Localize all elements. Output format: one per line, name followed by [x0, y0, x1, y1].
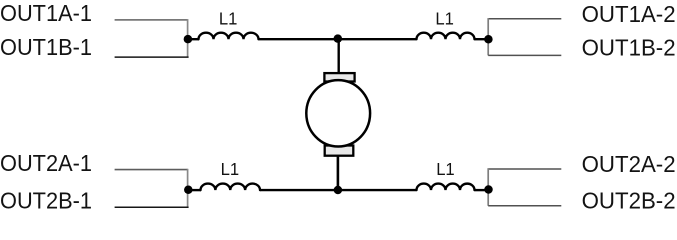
wire motor top lead — [338, 39, 340, 75]
wire OUT1A-1 stub (gray) — [115, 19, 188, 21]
svg-text:L1: L1 — [221, 159, 240, 179]
wire OUT2A-1 stub (gray) — [115, 169, 188, 171]
svg-text:OUT1B-2: OUT1B-2 — [582, 35, 676, 61]
wire top rail: dot to L1 (top-left) — [188, 38, 199, 40]
wire top rail: center segment — [259, 38, 417, 40]
inductor L1 (bottom-right) — [417, 184, 475, 190]
svg-text:OUT2B-2: OUT2B-2 — [582, 188, 676, 214]
svg-text:OUT2B-1: OUT2B-1 — [0, 188, 92, 214]
inductor L1 (top-left) — [199, 33, 259, 40]
junction dot top-right — [484, 35, 493, 44]
wire vertical connector bottom-left (gray) — [187, 169, 189, 207]
wire OUT1A-2 stub (gray) — [488, 18, 561, 20]
junction dot bottom-center — [334, 186, 343, 195]
wire OUT2B-2 stub (gray) — [488, 205, 561, 207]
svg-text:L1: L1 — [219, 9, 238, 29]
wire bottom rail: center segment — [260, 189, 417, 191]
svg-text:L1: L1 — [435, 9, 454, 29]
svg-text:OUT1A-1: OUT1A-1 — [0, 0, 92, 26]
svg-text:OUT1A-2: OUT1A-2 — [582, 1, 676, 27]
wire vertical connector top-right (gray) — [487, 18, 489, 55]
junction dot top-center — [334, 34, 343, 43]
wire motor bottom lead — [337, 150, 340, 190]
inductor L1 (bottom-left) — [201, 184, 261, 191]
svg-text:OUT1B-1: OUT1B-1 — [0, 34, 92, 60]
svg-text:L1: L1 — [436, 159, 455, 179]
junction dot bottom-left — [184, 186, 193, 195]
wire OUT1B-2 stub (gray) — [488, 54, 561, 56]
wire vertical connector top-left (gray) — [187, 19, 189, 57]
svg-text:OUT2A-1: OUT2A-1 — [0, 150, 92, 176]
junction dot bottom-right — [484, 185, 493, 194]
svg-text:OUT2A-2: OUT2A-2 — [582, 151, 676, 177]
wire OUT2A-2 stub (gray) — [488, 168, 561, 170]
junction dot top-left — [184, 35, 193, 44]
wire bottom rail: dot to L1 (bottom-left) — [188, 189, 201, 191]
wire bottom rail: L1 to dot (bottom-right) — [475, 189, 489, 191]
inductor L1 (top-right) — [417, 33, 475, 40]
wire top rail: L1 to dot (top-right) — [475, 38, 489, 40]
wire vertical connector bottom-right (gray) — [487, 168, 489, 206]
motor M1 body — [306, 80, 370, 146]
wire OUT2B-1 stub (dark) — [115, 206, 189, 208]
motor brush top — [324, 73, 354, 81]
wire OUT1B-1 stub (dark) — [115, 56, 189, 58]
motor brush bottom — [325, 146, 354, 156]
